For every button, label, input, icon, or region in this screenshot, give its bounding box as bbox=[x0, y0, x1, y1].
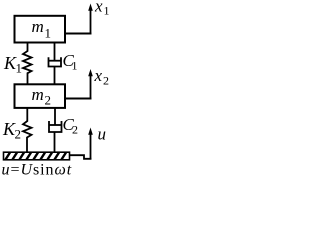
arrow u bbox=[88, 128, 93, 160]
mass block m1 bbox=[15, 16, 66, 43]
svg-text:1: 1 bbox=[104, 4, 110, 18]
svg-text:1: 1 bbox=[72, 59, 78, 73]
wire from m2 to x2 arrow bbox=[65, 98, 91, 100]
svg-text:2: 2 bbox=[72, 123, 78, 137]
mass block m2 bbox=[15, 84, 66, 108]
svg-text:2: 2 bbox=[45, 93, 52, 108]
wire from m1 to x1 arrow bbox=[65, 33, 91, 35]
svg-text:1: 1 bbox=[16, 61, 23, 76]
damper C1 bbox=[48, 43, 62, 86]
damper C2 bbox=[49, 108, 63, 153]
arrow x2 bbox=[88, 69, 93, 100]
label K2 bbox=[2, 119, 21, 142]
arrow x1 bbox=[88, 4, 93, 35]
label x2 bbox=[94, 66, 110, 88]
svg-text:2: 2 bbox=[15, 127, 22, 142]
svg-text:u: u bbox=[98, 125, 107, 144]
label x1 bbox=[94, 0, 110, 18]
svg-text:x: x bbox=[94, 66, 103, 85]
svg-text:x: x bbox=[94, 0, 103, 16]
spring K2 bbox=[23, 108, 32, 153]
label K1 bbox=[3, 53, 22, 76]
label m1 bbox=[32, 17, 52, 41]
label m2 bbox=[32, 85, 52, 108]
svg-text:2: 2 bbox=[103, 74, 109, 88]
label C2 bbox=[63, 115, 79, 137]
spring K1 bbox=[23, 43, 32, 86]
ground (hatched base) bbox=[4, 152, 70, 160]
svg-text:m: m bbox=[32, 17, 44, 36]
label C1 bbox=[63, 51, 78, 73]
wire from ground to u arrow bbox=[70, 155, 91, 159]
svg-text:m: m bbox=[32, 85, 44, 104]
svg-text:1: 1 bbox=[45, 26, 52, 41]
svg-text:u=Usinωt: u=Usinωt bbox=[2, 162, 73, 179]
